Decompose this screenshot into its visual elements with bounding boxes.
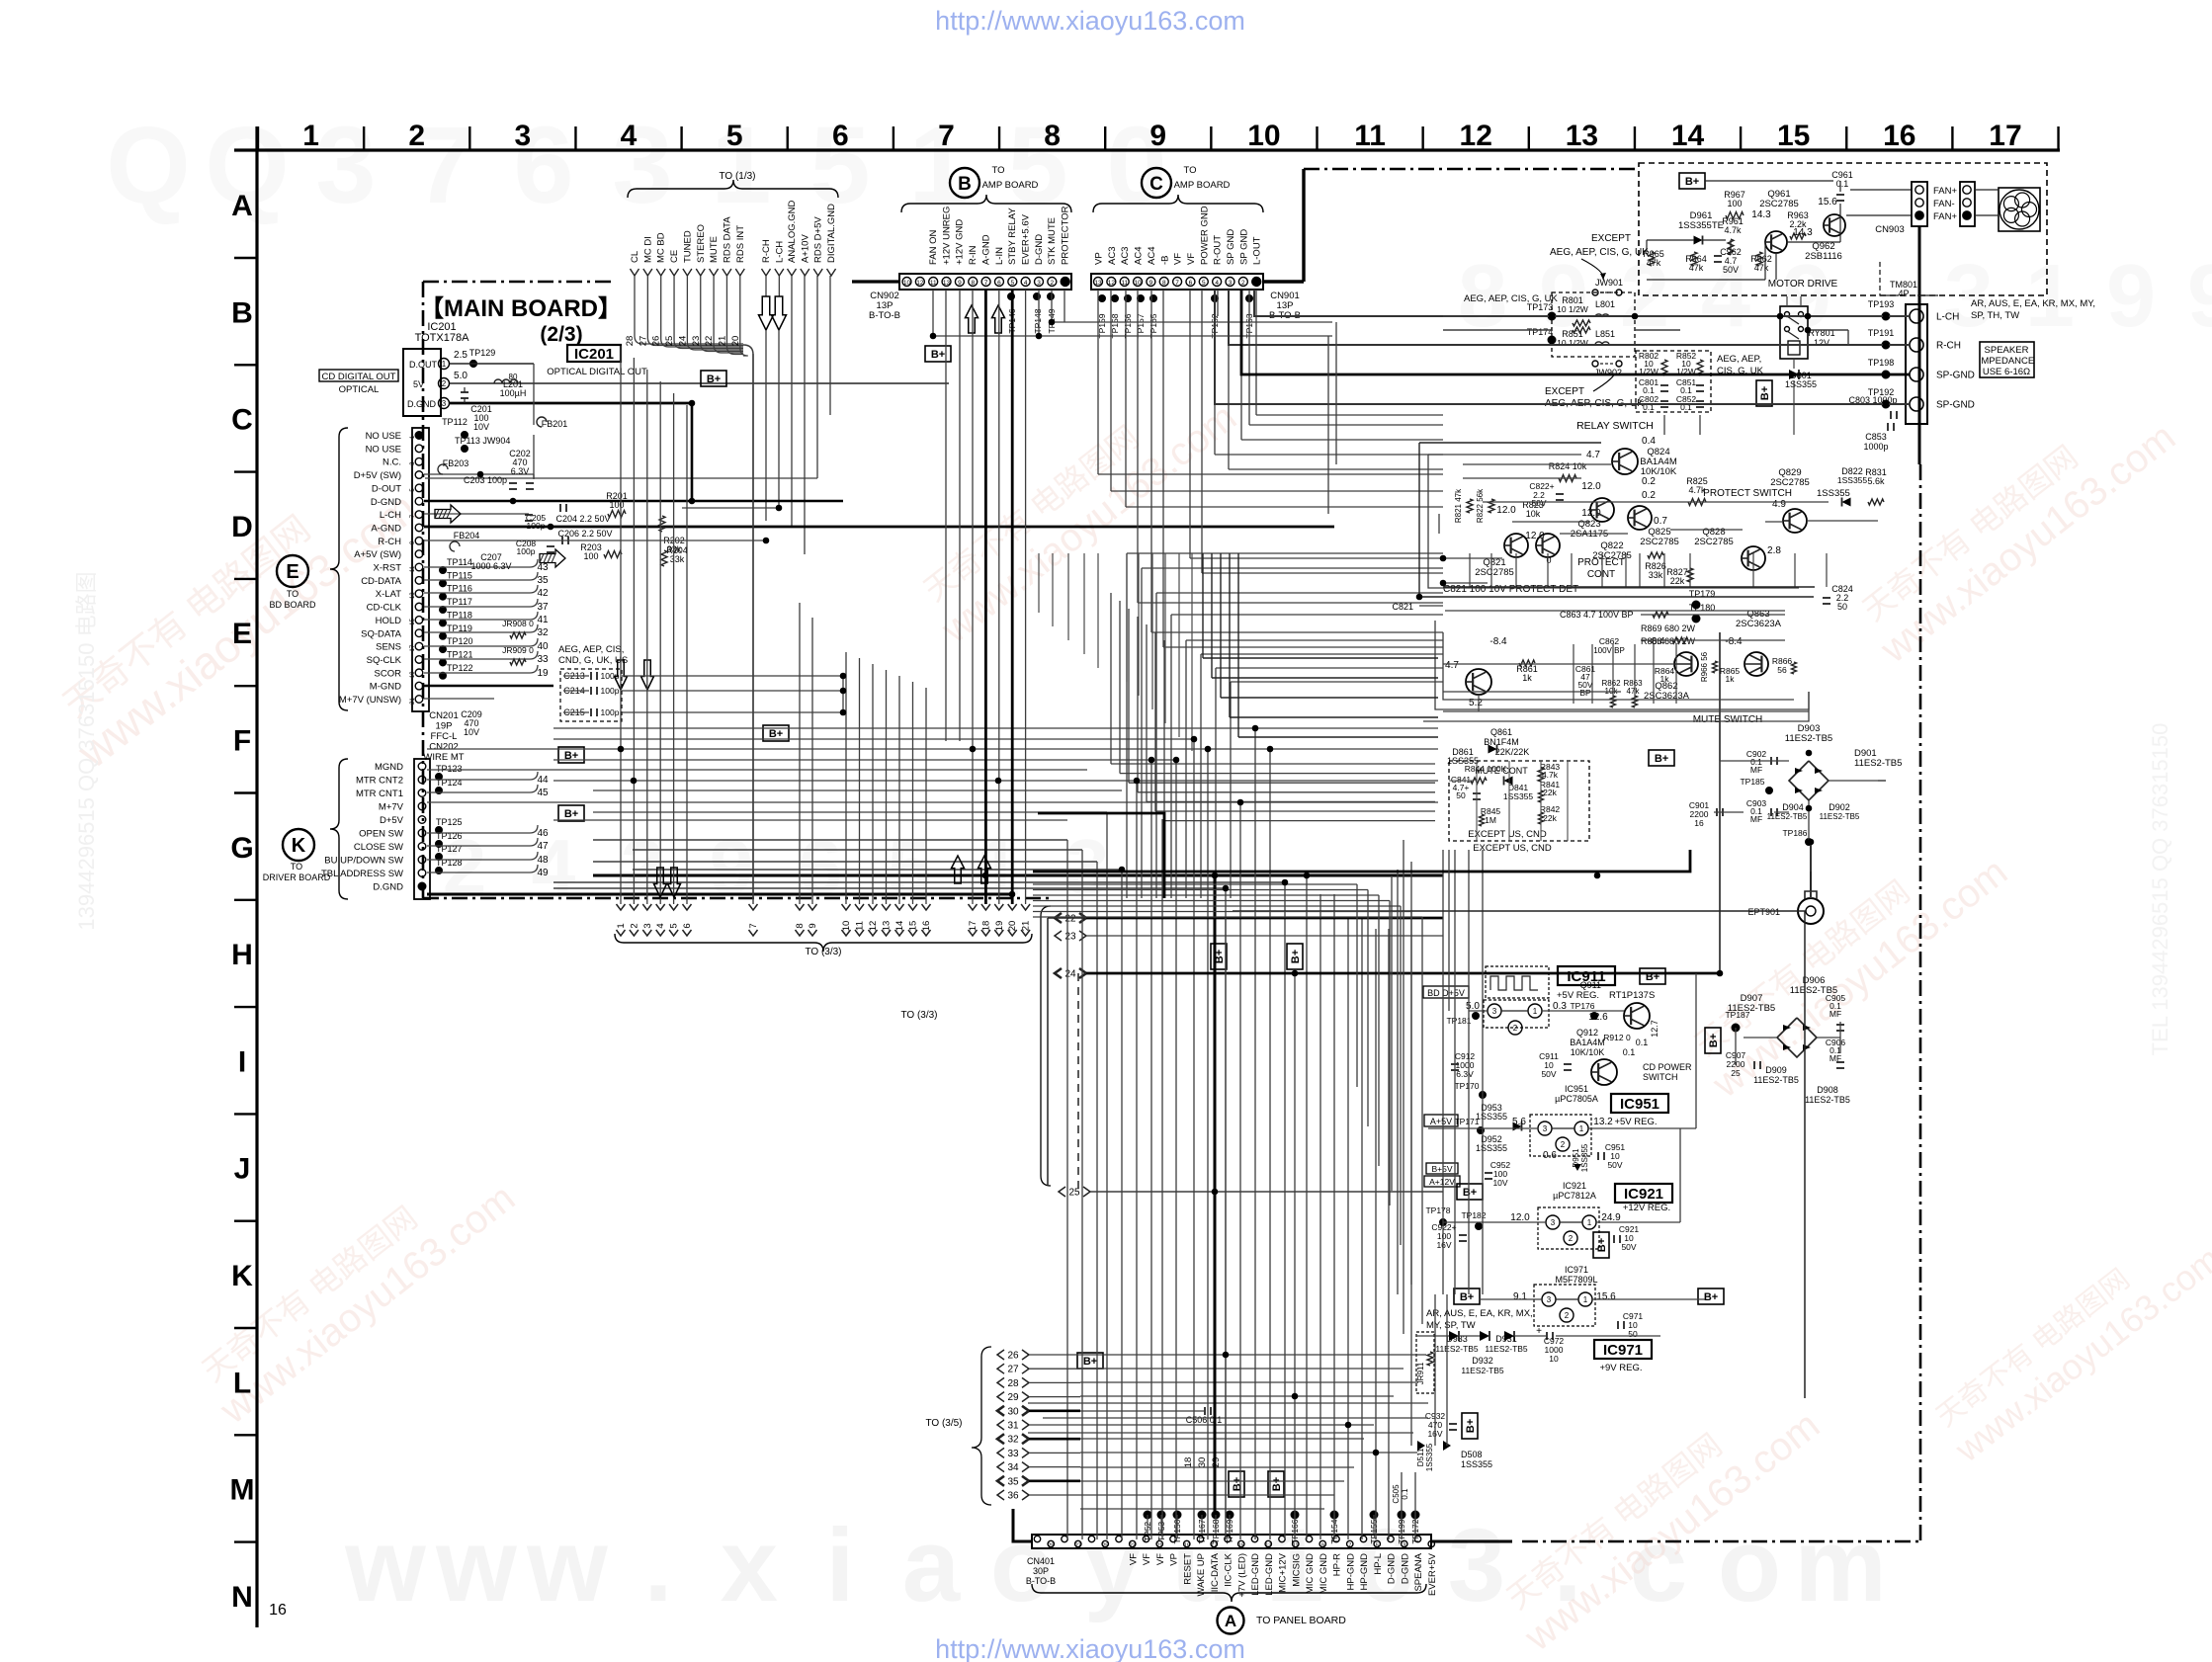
svg-text:TP121: TP121 [447, 649, 473, 659]
svg-text:+5V REG.: +5V REG. [1614, 1117, 1657, 1127]
svg-text:9: 9 [1149, 120, 1166, 152]
svg-text:CL: CL [630, 251, 640, 263]
svg-text:9: 9 [958, 280, 962, 287]
svg-text:MF: MF [1750, 765, 1762, 775]
svg-text:CONT: CONT [1587, 569, 1615, 580]
svg-text:-8.4: -8.4 [1725, 636, 1743, 647]
bus arrow 7 [749, 904, 758, 910]
svg-text:1SS355: 1SS355 [1476, 1112, 1507, 1122]
svg-text:B+: B+ [769, 728, 783, 740]
svg-text:FAN+: FAN+ [1933, 211, 1957, 222]
svg-text:MY, SP, TW: MY, SP, TW [1426, 1320, 1476, 1331]
svg-text:3: 3 [1551, 1218, 1556, 1227]
svg-text:C821 100 10V PROTECT DET: C821 100 10V PROTECT DET [1443, 584, 1578, 595]
hollow down arrows R-CH L-CH [759, 296, 774, 330]
svg-text:19: 19 [1184, 1543, 1190, 1549]
svg-text:BA1A4M: BA1A4M [1570, 1038, 1605, 1047]
wire D.OUT [450, 363, 534, 365]
svg-text:Q911: Q911 [1580, 980, 1601, 990]
svg-text:VP: VP [1169, 1553, 1180, 1566]
svg-text:25: 25 [1068, 1188, 1080, 1199]
svg-text:TP174: TP174 [1527, 327, 1554, 337]
svg-text:10: 10 [1247, 120, 1280, 152]
svg-text:D: D [231, 511, 253, 543]
svg-text:HOLD: HOLD [376, 616, 402, 626]
svg-text:2: 2 [442, 379, 447, 388]
svg-text:12: 12 [1108, 280, 1116, 287]
wire dash vertical 1091 [1077, 973, 1079, 1191]
svg-text:TO (1/3): TO (1/3) [719, 171, 755, 182]
svg-text:E: E [232, 618, 252, 650]
svg-text:SWITCH: SWITCH [1643, 1072, 1678, 1082]
svg-text:EPT901: EPT901 [1747, 907, 1780, 917]
power B+ near CN902 [925, 346, 951, 362]
svg-text:1SS355: 1SS355 [1837, 475, 1868, 485]
svg-text:TBL ADDRESS SW: TBL ADDRESS SW [321, 869, 403, 879]
svg-text:2.5: 2.5 [454, 350, 468, 361]
svg-text:EVER+5V: EVER+5V [1427, 1552, 1438, 1596]
svg-text:0.1: 0.1 [1623, 1047, 1636, 1057]
svg-text:24: 24 [1064, 969, 1076, 980]
svg-text:25: 25 [1731, 1068, 1741, 1078]
svg-text:BD BOARD: BD BOARD [269, 600, 316, 610]
svg-text:7: 7 [1348, 1543, 1351, 1549]
regulator IC911 symbol [1484, 1000, 1549, 1028]
transistor Q825 [1628, 506, 1652, 530]
svg-text:L-CH: L-CH [774, 241, 785, 263]
svg-text:1: 1 [1587, 1218, 1592, 1227]
svg-text:J: J [234, 1153, 251, 1186]
circle C to AMP BOARD [1142, 168, 1171, 198]
svg-text:o: o [1718, 1508, 1781, 1623]
svg-text:40: 40 [537, 641, 549, 652]
svg-text:MOTOR DRIVE: MOTOR DRIVE [1768, 279, 1838, 290]
svg-text:10V: 10V [473, 422, 489, 432]
svg-text:4.7: 4.7 [1586, 450, 1600, 460]
svg-text:100p: 100p [517, 546, 536, 556]
svg-text:12V: 12V [1814, 338, 1829, 348]
svg-text:AC3: AC3 [1120, 247, 1131, 265]
svg-text:w: w [526, 1508, 608, 1623]
svg-text:SQ-DATA: SQ-DATA [361, 628, 401, 639]
wire A-GND row thick [424, 526, 1334, 529]
svg-text:Q912: Q912 [1576, 1028, 1598, 1038]
svg-text:0.2: 0.2 [1642, 476, 1656, 487]
svg-text:TP165: TP165 [1149, 313, 1158, 338]
wire protect block loops [1419, 443, 1814, 597]
svg-text:2SC2785: 2SC2785 [1759, 199, 1799, 209]
brace TO 3/3 right [1041, 906, 1051, 1186]
svg-text:HP-GND: HP-GND [1359, 1553, 1370, 1591]
bus arrows 17-21 [969, 904, 978, 910]
svg-text:27: 27 [1075, 1543, 1081, 1549]
svg-text:TP186: TP186 [1782, 828, 1807, 838]
svg-text:14: 14 [894, 921, 905, 932]
wire M+7V [424, 698, 494, 700]
svg-text:PROTECTOR: PROTECTOR [1061, 206, 1071, 265]
svg-text:A+5V: A+5V [1430, 1117, 1452, 1126]
wire CN401 right to outline [1431, 1540, 1512, 1543]
wire horizontals from 22-25 to right [1086, 917, 1443, 920]
wire horizontals lower left of regs [1028, 1402, 1428, 1404]
wire thick y882 to EPT [1033, 850, 1690, 872]
hollow down arrows above arrows 4-5 [654, 868, 667, 897]
svg-text:IIC-DATA: IIC-DATA [1210, 1552, 1221, 1592]
svg-text:RT1P137S: RT1P137S [1609, 990, 1655, 1001]
bus arrows 10-16 [842, 904, 851, 910]
svg-text:0.1: 0.1 [1636, 1038, 1649, 1047]
svg-text:TP170: TP170 [1454, 1081, 1479, 1091]
svg-text:B+: B+ [1083, 1356, 1097, 1368]
svg-text:10k: 10k [1526, 509, 1541, 519]
svg-text:8: 8 [971, 280, 975, 287]
dashed box R801 L801 R851 L851 [1552, 292, 1635, 357]
svg-text:FB204: FB204 [454, 531, 480, 540]
jumper JR911 dashed [1416, 1332, 1434, 1393]
brace TO PANEL BOARD [1032, 1584, 1426, 1602]
svg-text:EXCEPT US, CND: EXCEPT US, CND [1473, 843, 1552, 854]
wire regulator area verticals [1442, 850, 1444, 1294]
svg-text:IC201: IC201 [574, 346, 614, 363]
connector TM801 dashed outline [1880, 262, 1939, 295]
svg-text:TP185: TP185 [1740, 777, 1764, 787]
hollow up arrows under CN902 [966, 305, 978, 333]
transistor Q911 [1624, 1003, 1650, 1029]
svg-text:x: x [721, 1508, 778, 1623]
svg-text:3: 3 [1229, 280, 1233, 287]
relay RY801 [1780, 306, 1808, 359]
svg-text:X-RST: X-RST [374, 563, 402, 574]
svg-text:D908: D908 [1817, 1085, 1838, 1095]
svg-text:11: 11 [1121, 280, 1128, 287]
svg-text:AEG, AEP,: AEG, AEP, [1717, 354, 1761, 365]
svg-text:EXCEPT: EXCEPT [1591, 233, 1631, 244]
svg-text:43: 43 [537, 562, 549, 573]
svg-text:Q: Q [106, 105, 191, 226]
circle A TO PANEL BOARD [1218, 1608, 1244, 1634]
svg-text:22k: 22k [1543, 813, 1557, 823]
svg-text:3: 3 [442, 399, 447, 408]
svg-text:15: 15 [410, 618, 416, 624]
svg-text:IC951: IC951 [1565, 1084, 1588, 1094]
dashed box R802 C801 C802 R852 C851 C852 [1636, 351, 1711, 412]
svg-text:CD-CLK: CD-CLK [367, 603, 402, 614]
svg-text:MIC GND: MIC GND [1319, 1553, 1329, 1594]
brace C group [1093, 195, 1263, 212]
svg-text:32: 32 [1007, 1435, 1019, 1446]
svg-text:1: 1 [302, 120, 319, 152]
svg-text:37: 37 [537, 602, 549, 613]
svg-text:9: 9 [1149, 280, 1153, 287]
svg-text:TP112: TP112 [442, 417, 468, 427]
circle E to BD BOARD [330, 428, 348, 710]
brace TO 3/3 bottom [615, 934, 1032, 952]
svg-text:R-OUT: R-OUT [1213, 235, 1224, 265]
svg-text:w: w [435, 1508, 517, 1623]
wire bridge D906 connections [1744, 1037, 1777, 1039]
svg-text:30: 30 [1197, 1457, 1208, 1468]
svg-text:B+: B+ [1596, 1238, 1608, 1252]
dashed box IC911 waveform [1486, 966, 1549, 998]
svg-text:6: 6 [997, 280, 1001, 287]
svg-text:9.1: 9.1 [1513, 1291, 1527, 1302]
svg-text:AMP BOARD: AMP BOARD [1174, 180, 1231, 191]
power B+ pair left [1211, 944, 1227, 969]
svg-text:L-CH: L-CH [380, 510, 401, 521]
svg-text:B+: B+ [1655, 753, 1668, 765]
svg-text:JW901: JW901 [1595, 278, 1623, 288]
svg-text:TP123: TP123 [436, 764, 463, 774]
svg-text:TP114: TP114 [447, 557, 472, 567]
svg-text:MC DI: MC DI [642, 236, 653, 263]
svg-text:2SB1116: 2SB1116 [1805, 251, 1842, 262]
svg-text:9: 9 [2106, 247, 2156, 346]
svg-text:RDS INT: RDS INT [735, 225, 746, 263]
svg-text:R-CH: R-CH [378, 537, 401, 547]
wire bus verticals 8-9 [799, 603, 801, 904]
svg-text:R-CH: R-CH [1936, 341, 1961, 352]
svg-text:11ES2-TB5: 11ES2-TB5 [1854, 758, 1902, 769]
svg-text:B+: B+ [1465, 1419, 1477, 1433]
svg-text:HP-L: HP-L [1373, 1553, 1384, 1575]
svg-text:TP181: TP181 [1446, 1016, 1471, 1026]
svg-text:RDS D+5V: RDS D+5V [813, 216, 824, 263]
svg-text:AR, AUS, E, EA, KR, MX, MY,: AR, AUS, E, EA, KR, MX, MY, [1971, 298, 2095, 309]
svg-text:15: 15 [908, 921, 919, 932]
svg-text:Q861: Q861 [1490, 727, 1512, 737]
power B+ motor [1679, 173, 1705, 189]
svg-text:1k: 1k [1726, 674, 1736, 684]
svg-text:8: 8 [795, 923, 806, 928]
svg-text:7: 7 [1175, 280, 1179, 287]
svg-text:TO: TO [287, 589, 298, 599]
svg-text:10: 10 [903, 280, 911, 287]
svg-text:13944296515 QQ 376315150 电路: 13944296515 QQ 376315150 电路图 [74, 571, 99, 930]
label IC971 box [1594, 1340, 1652, 1359]
svg-text:µPC7812A: µPC7812A [1553, 1191, 1596, 1201]
svg-text:4: 4 [1024, 280, 1028, 287]
label IC201 box [567, 345, 621, 362]
svg-text:TUNED: TUNED [682, 230, 693, 263]
svg-text:µPC7805A: µPC7805A [1555, 1094, 1598, 1104]
svg-text:CN201: CN201 [429, 710, 459, 721]
svg-text:12.6: 12.6 [1588, 1012, 1608, 1023]
svg-text:D511: D511 [1416, 1448, 1425, 1466]
svg-text:1SS355: 1SS355 [1476, 1143, 1507, 1153]
wire D-GND row thick [424, 500, 692, 503]
svg-text:6: 6 [682, 923, 693, 928]
svg-text:12: 12 [916, 280, 924, 287]
svg-text:4: 4 [1215, 280, 1219, 287]
wire reg block frame [1233, 911, 1805, 1398]
hatched down arrows pair [615, 660, 628, 690]
wires from analog group down [791, 276, 793, 527]
svg-text:VF: VF [1142, 1553, 1152, 1565]
svg-text:16: 16 [1694, 818, 1704, 828]
svg-text:M+7V: M+7V [379, 802, 404, 813]
bus arrow 25 [1059, 1187, 1065, 1197]
svg-text:I: I [238, 1045, 246, 1078]
svg-text:B+: B+ [1460, 1291, 1474, 1303]
svg-text:16: 16 [1883, 120, 1915, 152]
svg-text:23: 23 [1064, 932, 1076, 943]
svg-text:D-OUT: D-OUT [372, 483, 401, 494]
svg-text:C506 0.1: C506 0.1 [1186, 1415, 1223, 1425]
wire R-CH continue [553, 540, 766, 541]
svg-text:25: 25 [1102, 1543, 1108, 1549]
power B+ vertical [1756, 380, 1772, 406]
svg-text:B+: B+ [1759, 386, 1771, 400]
svg-text:L-OUT: L-OUT [1252, 236, 1263, 265]
wire relay verticals [1793, 359, 1795, 369]
svg-text:CD POWER: CD POWER [1643, 1062, 1692, 1072]
svg-text:D-GND: D-GND [1387, 1553, 1398, 1584]
wire bridge D901 connections [1720, 760, 1789, 762]
svg-text:21: 21 [1021, 921, 1032, 932]
svg-text:AEG, AEP, CIS, G, UK: AEG, AEP, CIS, G, UK [1550, 247, 1649, 258]
svg-text:15.6: 15.6 [1818, 197, 1837, 208]
grid top border line [234, 148, 2060, 151]
svg-text:50: 50 [1628, 1329, 1638, 1339]
svg-text:23: 23 [1130, 1543, 1136, 1549]
wire verticals CN902 protector side [1038, 290, 1040, 336]
svg-text:A-GND: A-GND [980, 234, 991, 265]
svg-text:11: 11 [1354, 120, 1386, 152]
svg-text:SPEANA: SPEANA [1413, 1552, 1424, 1591]
svg-text:MUTE: MUTE [709, 236, 720, 263]
svg-text:CE: CE [669, 250, 680, 263]
svg-text:NO USE: NO USE [366, 444, 401, 455]
svg-text:3: 3 [1944, 247, 1994, 346]
svg-text:TO (3/3): TO (3/3) [900, 1010, 937, 1021]
svg-text:1: 1 [1533, 1007, 1538, 1016]
svg-text:L851: L851 [1595, 329, 1615, 339]
svg-text:2.8: 2.8 [1767, 545, 1781, 556]
wire C213 block vertical join [842, 676, 844, 712]
svg-text:DIGITAL.GND: DIGITAL.GND [826, 204, 837, 263]
transistor CD power switch [1591, 1059, 1617, 1085]
motor drive dashed box [1639, 163, 2047, 295]
connector CN902 pins [902, 278, 911, 287]
power B+ c932 [1462, 1413, 1478, 1439]
wire into CN902 left [852, 280, 899, 283]
svg-text:OPEN SW: OPEN SW [359, 829, 403, 840]
svg-text:2: 2 [1513, 1024, 1518, 1033]
svg-text:50V: 50V [1621, 1242, 1636, 1252]
svg-text:N: N [231, 1581, 253, 1614]
capacitor block C213 C214 C215 [560, 669, 622, 721]
svg-text:BD D+5V: BD D+5V [1427, 988, 1465, 998]
svg-text:11ES2-TB5: 11ES2-TB5 [1485, 1344, 1528, 1354]
svg-text:TO: TO [291, 862, 302, 872]
svg-text:SP-GND: SP-GND [1936, 400, 1975, 411]
svg-text:D902: D902 [1829, 802, 1850, 812]
svg-text:19: 19 [994, 921, 1005, 932]
svg-text:2: 2 [1561, 1140, 1566, 1149]
svg-text:3: 3 [1547, 1295, 1552, 1304]
svg-text:L: L [233, 1367, 251, 1399]
svg-text:M+7V (UNSW): M+7V (UNSW) [339, 695, 401, 706]
svg-text:33k: 33k [670, 554, 685, 564]
svg-text:w: w [344, 1508, 426, 1623]
power B+ ic971 left [1454, 1288, 1480, 1304]
svg-text:FFC-L: FFC-L [431, 731, 458, 742]
svg-text:A: A [1225, 1612, 1236, 1630]
wire tangle corner runs [1127, 552, 1443, 554]
svg-text:C862: C862 [1599, 636, 1620, 646]
svg-text:D.GND: D.GND [373, 882, 403, 893]
svg-text:i: i [825, 1508, 854, 1623]
wire mute internals [1491, 663, 1674, 665]
svg-text:HP-R: HP-R [1332, 1553, 1343, 1576]
speaker pins L-CH R-CH SP-GND SP-GND [1910, 309, 1923, 323]
svg-text:2: 2 [1569, 1234, 1574, 1243]
svg-text:2SC2785: 2SC2785 [1694, 537, 1734, 547]
svg-text:27: 27 [1007, 1365, 1019, 1375]
svg-text:13: 13 [943, 280, 951, 287]
svg-text:14.3: 14.3 [1793, 227, 1813, 238]
svg-text:TP148: TP148 [1033, 308, 1043, 333]
svg-text:15.6: 15.6 [1596, 1291, 1616, 1302]
svg-text:VF: VF [1155, 1553, 1166, 1565]
svg-text:C: C [1149, 174, 1163, 195]
connector CN903 body [1912, 182, 1927, 226]
wire verticals 17-21 from CN902 [972, 290, 974, 904]
regulator IC971 symbol [1534, 1285, 1595, 1326]
regulator IC951 symbol [1530, 1115, 1591, 1156]
svg-text:PROTECT SWITCH: PROTECT SWITCH [1703, 488, 1792, 499]
wire EPT stem [1810, 872, 1812, 891]
svg-text:1M: 1M [1485, 815, 1496, 825]
wire 5V [450, 382, 949, 384]
svg-text:STEREO: STEREO [696, 224, 707, 263]
svg-text:R824 10k: R824 10k [1549, 461, 1587, 471]
svg-text:12.0: 12.0 [1496, 505, 1516, 516]
svg-text:1SS355: 1SS355 [1817, 488, 1850, 499]
connector CN901 body [1091, 274, 1263, 290]
label IC911 box [1558, 966, 1615, 985]
svg-text:35: 35 [1007, 1476, 1019, 1487]
svg-text:1SS355: 1SS355 [1580, 1143, 1589, 1172]
power B+ label [701, 371, 726, 386]
svg-text:B: B [958, 174, 972, 195]
wire bus vertical 7 [752, 354, 754, 904]
svg-text:11: 11 [410, 565, 416, 572]
svg-text:4: 4 [655, 923, 666, 928]
svg-text:16: 16 [269, 1602, 287, 1619]
connector CN901 pins [1094, 278, 1103, 287]
svg-text:TP119: TP119 [447, 623, 472, 633]
svg-text:-B: -B [1159, 256, 1170, 266]
svg-text:1k: 1k [1660, 674, 1670, 684]
wire protect cluster horizontals [1463, 463, 1611, 465]
svg-text:TP176: TP176 [1570, 1001, 1594, 1011]
svg-text:22K/22K: 22K/22K [1495, 747, 1530, 757]
svg-text:8: 8 [1162, 280, 1166, 287]
svg-text:17: 17 [1989, 120, 2021, 152]
hollow up arrows above outline [952, 856, 965, 883]
svg-text:28: 28 [1007, 1378, 1019, 1389]
svg-text:2: 2 [1241, 280, 1245, 287]
diode D841 [1504, 777, 1513, 786]
svg-text:1: 1 [2025, 247, 2075, 346]
svg-text:TP116: TP116 [447, 584, 472, 594]
labels B+5V A+12V [1426, 1163, 1458, 1174]
label A+5V [1424, 1115, 1458, 1126]
svg-text:100: 100 [1727, 199, 1742, 208]
svg-text:TP156: TP156 [1123, 313, 1133, 338]
circle B to AMP BOARD [950, 168, 979, 198]
